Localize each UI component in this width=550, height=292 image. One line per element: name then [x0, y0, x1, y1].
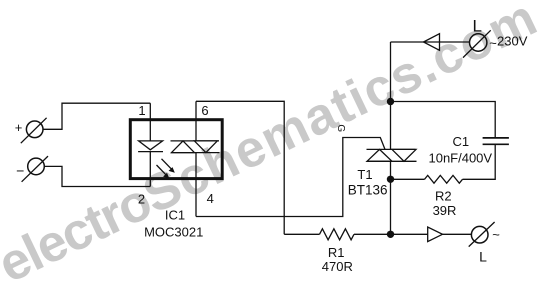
svg-text:470R: 470R	[322, 259, 353, 274]
svg-text:~: ~	[492, 227, 500, 242]
svg-text:L: L	[473, 16, 482, 35]
LED emission arrow 1	[162, 159, 175, 173]
optocoupler U/IC1 box	[130, 120, 222, 179]
svg-text:G: G	[335, 124, 346, 132]
svg-text:R1: R1	[328, 245, 345, 260]
capacitor C1	[483, 138, 509, 144]
svg-text:IC1: IC1	[165, 208, 185, 223]
mains label ~230V	[489, 33, 527, 50]
main vertical wire (mains L)	[390, 42, 392, 149]
svg-text:1: 1	[138, 103, 145, 118]
junction dot middle	[387, 176, 394, 183]
svg-text:R2: R2	[435, 188, 452, 203]
svg-text:6: 6	[201, 103, 208, 118]
pin 1 lead	[149, 103, 151, 141]
junction dot top	[387, 98, 394, 105]
svg-text:2: 2	[138, 192, 145, 207]
svg-text:39R: 39R	[433, 203, 457, 218]
wire pin 6 to mid vertical	[196, 101, 284, 234]
arrow left (from mains)	[424, 34, 440, 51]
wire top to L terminal	[391, 41, 470, 43]
wire triac junction to R2	[391, 178, 425, 180]
wire - terminal to pin 2	[44, 166, 150, 186]
wire pin 4 to gate	[196, 138, 385, 217]
pin 2 lead	[149, 152, 151, 187]
LED inside IC1	[138, 141, 163, 152]
pin 6 lead	[195, 101, 197, 141]
resistor R2 zigzag	[425, 175, 463, 183]
svg-text:−: −	[16, 163, 24, 179]
photo-triac inside IC1	[171, 141, 220, 153]
wire mid vertical to R1	[284, 233, 319, 235]
triac T1	[367, 149, 417, 161]
terminal L bottom	[469, 222, 501, 265]
svg-text:BT136: BT136	[348, 182, 388, 197]
terminal P2 (- input)	[16, 156, 48, 182]
wire R1 to arrow	[354, 233, 428, 235]
terminal L top	[463, 16, 491, 57]
svg-text:C1: C1	[452, 134, 469, 149]
arrow right (to load L)	[428, 227, 443, 242]
wire C1 to R2	[463, 144, 496, 179]
resistor R1 zigzag	[320, 229, 355, 240]
triac vertical MT1 lead	[390, 161, 392, 234]
wire + terminal to pin 1	[43, 103, 150, 129]
wire junction to C1	[391, 102, 496, 138]
wire arrow to L terminal	[443, 233, 472, 235]
svg-text:4: 4	[207, 191, 214, 206]
svg-text:T1: T1	[357, 167, 372, 182]
pin 4 lead	[195, 153, 197, 217]
svg-text:230V: 230V	[497, 33, 528, 48]
svg-text:10nF/400V: 10nF/400V	[428, 150, 492, 165]
LED emission arrow 2	[157, 165, 170, 179]
junction dot bottom	[387, 231, 394, 238]
svg-text:MOC3021: MOC3021	[144, 225, 203, 240]
svg-text:L: L	[479, 249, 487, 265]
terminal P1 (+ input)	[15, 118, 47, 143]
svg-text:+: +	[15, 120, 23, 135]
